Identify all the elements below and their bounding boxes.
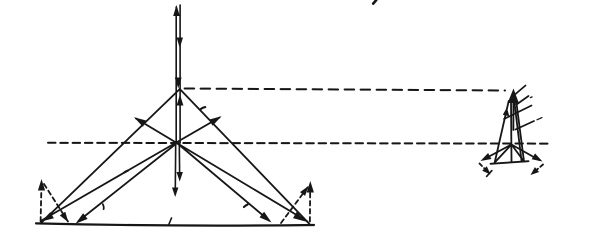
- small tick on center-right fanned line: [244, 205, 248, 208]
- fanned vector center to base right: [177, 143, 269, 221]
- arrowhead dashed vertical right: [307, 181, 314, 193]
- triangle right side: [180, 89, 310, 224]
- right figure: arrow junction to lower-left: [484, 145, 512, 160]
- fanned vector center to base left: [79, 143, 178, 221]
- vertical long arrow below center left: [174, 143, 176, 189]
- right figure: large filled up arrow: [508, 89, 519, 104]
- down arrowhead above apex: [175, 78, 182, 89]
- small tick on fanned-left line: [102, 204, 105, 209]
- arrowhead dashed diagonal right top: [300, 186, 309, 196]
- base line: [36, 223, 314, 225]
- right figure: diagonal tick 2: [517, 96, 529, 105]
- right figure: inner slanted line: [515, 103, 522, 161]
- right figure: inner right line to junction: [512, 145, 525, 162]
- arrowhead lower-left solid: [481, 153, 492, 161]
- right figure: right leg: [516, 101, 524, 162]
- arrowhead fanned right: [260, 212, 272, 223]
- stray comma mark top: [373, 0, 376, 4]
- right figure: faint dots after tick 4: [537, 118, 542, 120]
- dashed diagonal at bottom-left: [44, 184, 68, 222]
- center dashed line across: [48, 142, 552, 145]
- right figure: diagonal tick 4: [516, 121, 535, 130]
- right figure: diagonal tick near tip: [516, 86, 526, 95]
- arrowhead fanned left: [76, 213, 88, 224]
- arrowhead into bottom-right vertex: [293, 212, 306, 222]
- small tick on center-BL line: [124, 171, 128, 173]
- vertical double line right part: [179, 5, 181, 143]
- small tick on right triangle side: [201, 107, 206, 109]
- right figure: inner left line to junction: [495, 145, 512, 163]
- right figure: base line: [491, 161, 529, 164]
- apex dashed line to right figure: [185, 89, 505, 91]
- arrowhead dashed vertical left: [38, 179, 45, 191]
- right figure: diagonal tick long: [504, 106, 532, 120]
- dashed vertical arrow at bottom-left vertex: [40, 183, 43, 222]
- right figure: dashed right decomposition: [534, 165, 544, 173]
- down arrowhead on vertical upper: [177, 38, 183, 49]
- x arrowhead left decomposition: [482, 166, 490, 174]
- up arrowhead top of vertical: [173, 5, 180, 16]
- triangle left side: [41, 89, 180, 224]
- right figure: arrow junction to lower-right: [512, 145, 540, 161]
- vertical double line left part: [175, 7, 177, 143]
- vertical short arrow below center right: [178, 143, 180, 173]
- arrowhead dashed diagonal left: [60, 212, 69, 223]
- arrowhead into bottom-left vertex: [41, 212, 54, 221]
- long vector BL through center to upper right: [42, 118, 220, 221]
- right figure: up arrowhead on left leg: [503, 108, 510, 117]
- long vector BR through center to upper left: [136, 119, 308, 222]
- down arrowhead short: [177, 172, 183, 182]
- right figure: dashed left decomposition: [480, 164, 489, 173]
- x cross stroke left decomposition: [487, 171, 492, 177]
- right figure: left leg: [495, 101, 509, 163]
- dashed vertical arrow at bottom-right vertex: [309, 185, 311, 222]
- right figure: dot after tick 2: [531, 96, 533, 99]
- dashed diagonal at bottom-right: [281, 188, 308, 224]
- small tick near base middle: [169, 218, 172, 224]
- up arrowhead below apex: [177, 95, 184, 106]
- down arrowhead long: [172, 188, 178, 198]
- right figure: inner vertical 1: [510, 100, 513, 162]
- arrowhead lower-right solid: [532, 153, 543, 161]
- arrowhead at upper left end: [134, 117, 147, 127]
- arrowhead at upper right end: [209, 116, 222, 126]
- right figure: inner vertical 2: [512, 100, 514, 130]
- arrowhead right decomposition: [531, 167, 540, 175]
